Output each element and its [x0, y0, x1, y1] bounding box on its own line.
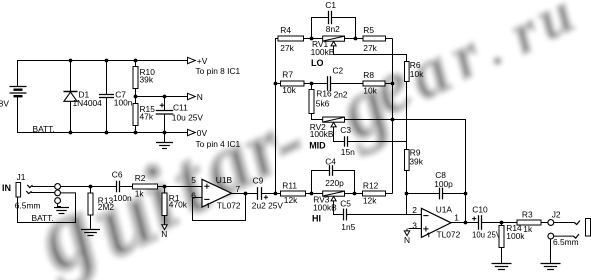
- junction dot U1B output: [244, 192, 248, 196]
- J2 ring contact hook: [573, 234, 579, 238]
- junction dot RV1 right: [354, 37, 358, 41]
- ground below R14: [492, 264, 512, 270]
- capacitor C11 10u 25V: [156, 97, 204, 133]
- jack J1 6.5mm: [2, 172, 40, 211]
- svg-text:7: 7: [236, 184, 241, 194]
- wire: C2 to R8: [331, 83, 364, 85]
- svg-text:BATT.: BATT.: [33, 124, 55, 134]
- node N arrow: [188, 92, 203, 102]
- wire: J2 ring to ground: [550, 239, 552, 263]
- J2 tip contact hook: [574, 221, 580, 225]
- wire: N row: [136, 96, 188, 98]
- label BATT. upper: [33, 124, 55, 134]
- svg-text:27k: 27k: [363, 43, 377, 53]
- resistor R15 47k: [133, 97, 155, 133]
- svg-text:5k6: 5k6: [316, 99, 330, 109]
- wire: feedback tap to output column: [393, 120, 466, 223]
- svg-text:470k: 470k: [169, 200, 188, 210]
- wire: sleeve to ground: [58, 204, 61, 207]
- resistor R2 1k: [133, 173, 158, 199]
- svg-text:2M2: 2M2: [98, 202, 115, 212]
- capacitor C1 8n2 bridge: [312, 0, 356, 39]
- junction dot R1: [163, 185, 167, 189]
- svg-text:TL072: TL072: [437, 230, 461, 240]
- op-amp U1A TL072: [412, 205, 460, 240]
- svg-text:5: 5: [191, 175, 196, 185]
- svg-text:C11: C11: [173, 102, 188, 112]
- wire: R4 to RV1: [304, 38, 323, 40]
- wire: RV3 wiper to C5: [334, 201, 344, 215]
- resistor R12 12k: [363, 181, 386, 206]
- svg-text:To pin 4 IC1: To pin 4 IC1: [196, 139, 241, 149]
- capacitor C2 2n2: [328, 66, 348, 100]
- svg-text:C1: C1: [325, 0, 336, 10]
- svg-text:HI: HI: [312, 214, 321, 224]
- node +V arrow: [188, 56, 241, 76]
- svg-text:10u 25V: 10u 25V: [172, 112, 204, 122]
- svg-text:C2: C2: [333, 66, 344, 76]
- svg-text:C3: C3: [340, 125, 351, 135]
- wire: RV1 to R5: [345, 38, 364, 40]
- svg-text:100n: 100n: [113, 193, 132, 203]
- svg-text:MID: MID: [309, 140, 326, 150]
- wire: J2 ring to hook: [554, 235, 574, 237]
- svg-text:N: N: [161, 229, 167, 239]
- wire: ring to contact circle: [31, 192, 55, 194]
- svg-text:BATT.: BATT.: [32, 213, 54, 223]
- resistor R5 27k: [363, 25, 386, 53]
- resistor R14 100k: [499, 223, 525, 264]
- svg-text:R2: R2: [135, 173, 146, 183]
- J1 sleeve circle: [55, 198, 61, 204]
- potentiometer RV3 100kB: [313, 191, 345, 212]
- wire: +V top rail: [18, 61, 188, 87]
- wire: C5 to U1A pin2: [347, 214, 422, 216]
- svg-text:N: N: [404, 235, 410, 245]
- wire: signal tip to C6: [61, 186, 117, 188]
- wire: U1A pin3 stub: [409, 228, 422, 230]
- svg-text:100kB: 100kB: [310, 129, 334, 139]
- svg-text:18V: 18V: [0, 98, 9, 108]
- diode D1 1N4004: [64, 61, 103, 133]
- label LO: [311, 58, 324, 68]
- junction dot left rail MID: [274, 82, 278, 86]
- capacitor C4 220p bridge: [312, 156, 355, 193]
- wire: RV2 wiper to C3: [334, 127, 345, 142]
- svg-text:6.5mm: 6.5mm: [553, 237, 579, 247]
- resistor R4 27k: [278, 25, 304, 53]
- ground below J2: [541, 264, 561, 270]
- svg-text:15n: 15n: [341, 147, 355, 157]
- resistor R3 1k: [517, 210, 541, 235]
- svg-text:100n: 100n: [114, 98, 133, 108]
- junction dot R13: [89, 185, 93, 189]
- svg-text:2: 2: [412, 205, 417, 215]
- wire: C9 to R11: [262, 193, 281, 195]
- svg-text:10k: 10k: [410, 69, 424, 79]
- resistor R11 12k: [281, 181, 306, 206]
- junction dot U1A output: [464, 221, 468, 225]
- wire: RV1 wiper to R6: [334, 46, 407, 62]
- svg-text:100p: 100p: [434, 179, 453, 189]
- wire: R16 to RV2: [312, 114, 323, 120]
- label BATT. lower: [32, 213, 54, 223]
- resistor R7 10k: [281, 70, 305, 96]
- svg-text:LO: LO: [311, 58, 324, 68]
- svg-text:1: 1: [454, 213, 459, 223]
- wire: R7 to C2: [304, 83, 328, 85]
- wire: RV2 right to rail: [345, 119, 393, 121]
- svg-text:12k: 12k: [363, 195, 377, 205]
- svg-text:+V: +V: [197, 56, 208, 66]
- J2 tip circle: [548, 220, 554, 226]
- svg-text:2n2: 2n2: [334, 90, 348, 100]
- wire: R6 to R9: [406, 82, 408, 150]
- resistor R6 10k: [405, 60, 425, 81]
- svg-text:R16: R16: [316, 89, 332, 99]
- junction dot R14 top: [500, 221, 504, 225]
- svg-text:1k: 1k: [135, 189, 145, 199]
- capacitor C8 100p: [407, 170, 466, 199]
- svg-text:39k: 39k: [409, 157, 423, 167]
- wire: C6 to R2: [120, 186, 133, 188]
- svg-text:R5: R5: [363, 25, 374, 35]
- wire: R3 to J2: [541, 222, 548, 224]
- wire: R5 to right rail: [386, 38, 393, 40]
- wire: R2 to U1B pin5: [158, 186, 203, 188]
- capacitor C9 2u2 25V: [252, 176, 284, 211]
- svg-text:6.5mm: 6.5mm: [15, 200, 41, 210]
- svg-text:R4: R4: [280, 25, 291, 35]
- resistor R1 470k: [162, 187, 188, 225]
- wire: EQ right rail: [392, 39, 394, 194]
- node N arrow below U1A pin3: [404, 229, 410, 245]
- junction dot RV2 rail: [391, 118, 395, 122]
- capacitor C10 10u 25V: [472, 205, 502, 240]
- ground at J1: [54, 208, 69, 214]
- svg-text:220p: 220p: [325, 178, 344, 188]
- wire: R8 to rail: [385, 83, 393, 85]
- label MID: [309, 140, 326, 150]
- svg-text:1k: 1k: [523, 224, 533, 234]
- wire: J2 tip to hook: [554, 222, 575, 224]
- svg-text:1N4004: 1N4004: [73, 98, 103, 108]
- svg-text:10k: 10k: [282, 85, 296, 95]
- svg-text:R3: R3: [522, 210, 533, 220]
- wire: RV3 to R12: [345, 193, 363, 195]
- capacitor C3 15n: [340, 125, 355, 157]
- capacitor C5 1n5: [340, 199, 355, 232]
- svg-text:2u2 25V: 2u2 25V: [252, 201, 284, 211]
- svg-text:C6: C6: [112, 170, 123, 180]
- svg-text:R11: R11: [282, 181, 297, 191]
- svg-text:C4: C4: [325, 156, 336, 166]
- node N arrow below R1: [161, 225, 167, 239]
- battery BT1 9V: [10, 87, 27, 97]
- svg-text:U1B: U1B: [216, 175, 233, 185]
- ground below R13: [81, 230, 100, 236]
- wire: U1B output to C9: [232, 193, 258, 195]
- label HI: [312, 214, 321, 224]
- svg-text:C10: C10: [472, 205, 488, 215]
- wire: R12 to rail: [386, 193, 393, 195]
- J1 tip circle: [55, 184, 61, 190]
- svg-text:C9: C9: [253, 176, 264, 186]
- potentiometer RV1 100kB: [311, 36, 345, 57]
- svg-text:R8: R8: [363, 70, 374, 80]
- wire: 0V bottom rail: [18, 97, 188, 133]
- junction dot R8 rail: [391, 82, 395, 86]
- svg-text:27k: 27k: [280, 43, 294, 53]
- junction dot R16 top: [310, 82, 314, 86]
- junction dot EQ left rail: [274, 192, 278, 196]
- svg-text:To pin 8 IC1: To pin 8 IC1: [196, 66, 241, 76]
- svg-text:J1: J1: [17, 172, 26, 182]
- junction dots power rails: [69, 59, 167, 135]
- svg-text:12k: 12k: [284, 195, 298, 205]
- svg-text:J2: J2: [552, 210, 561, 220]
- svg-text:R7: R7: [282, 70, 293, 80]
- J1 ring contact hook: [26, 191, 31, 194]
- wire: battery switch loop: [18, 193, 76, 223]
- ground below C11: [156, 133, 173, 149]
- J1 ring circle: [55, 190, 61, 196]
- resistor R10 39k: [133, 61, 155, 97]
- battery value 18V (left-clipped): [0, 98, 9, 108]
- svg-text:IN: IN: [2, 183, 11, 193]
- wire: U1A output to C10: [451, 222, 479, 224]
- svg-text:TL072: TL072: [217, 201, 241, 211]
- svg-text:8n2: 8n2: [326, 24, 340, 34]
- wire: left rail to R7: [276, 83, 281, 85]
- svg-text:10k: 10k: [363, 86, 377, 96]
- svg-text:10u 25V: 10u 25V: [472, 230, 502, 239]
- svg-text:U1A: U1A: [436, 205, 453, 215]
- junction dots C8 row: [405, 192, 468, 196]
- wire: C10 to R3: [482, 222, 518, 224]
- capacitor C6 100n: [112, 170, 132, 203]
- svg-text:N: N: [197, 92, 203, 102]
- junction dot RV3 left: [310, 192, 314, 196]
- capacitor C7 100n: [99, 61, 133, 133]
- J2 ring circle: [548, 233, 554, 239]
- svg-text:1n5: 1n5: [341, 222, 355, 232]
- op-amp U1B TL072: [191, 175, 241, 210]
- junction dot RV3 right: [353, 192, 357, 196]
- resistor R8 10k: [363, 70, 385, 95]
- svg-text:47k: 47k: [140, 112, 154, 122]
- wire: R9 to pin2 row: [406, 171, 408, 215]
- jack J2 6.5mm: [552, 210, 591, 248]
- resistor R9 39k: [405, 148, 424, 171]
- wire: U1B feedback loop: [193, 194, 246, 221]
- svg-text:39k: 39k: [140, 74, 154, 84]
- wire: C3 to R9 column: [348, 141, 407, 143]
- svg-text:0V: 0V: [197, 128, 208, 138]
- wire: R11 to RV3: [306, 193, 323, 195]
- potentiometer RV2 100kB: [310, 117, 345, 139]
- wire: EQ left rail: [276, 39, 279, 194]
- resistor R13 2M2: [88, 187, 114, 230]
- node 0V arrow: [188, 128, 241, 149]
- J1 tip contact hook: [27, 185, 32, 188]
- svg-text:C5: C5: [340, 199, 351, 209]
- svg-text:R12: R12: [363, 181, 379, 191]
- resistor R16 5k6: [309, 84, 332, 114]
- junction dot RV1 left: [310, 37, 314, 41]
- wire: tip to contact circle: [32, 186, 55, 188]
- svg-text:100kB: 100kB: [311, 47, 335, 57]
